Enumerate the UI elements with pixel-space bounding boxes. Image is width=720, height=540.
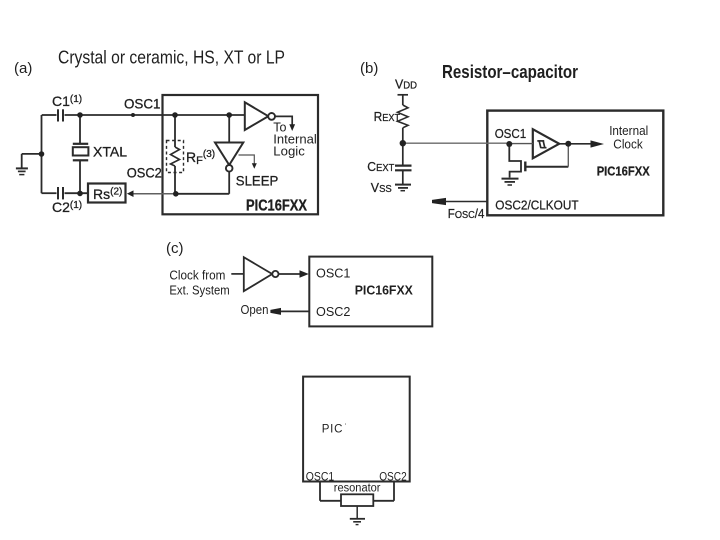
svg-text:(b): (b) bbox=[360, 60, 378, 77]
svg-text:OSC2: OSC2 bbox=[379, 472, 407, 484]
svg-text:Clock: Clock bbox=[613, 137, 643, 151]
svg-text:Logic: Logic bbox=[273, 145, 305, 159]
svg-text:Ext. System: Ext. System bbox=[169, 284, 229, 298]
svg-text:OSC2/CLKOUT: OSC2/CLKOUT bbox=[495, 198, 578, 213]
svg-text:RF(3): RF(3) bbox=[186, 149, 215, 167]
svg-text:VSS: VSS bbox=[371, 180, 392, 195]
svg-text:Resistor–capacitor: Resistor–capacitor bbox=[442, 62, 578, 82]
svg-text:PIC: PIC bbox=[322, 424, 344, 436]
svg-text:’: ’ bbox=[345, 423, 347, 430]
svg-text:(a): (a) bbox=[14, 60, 32, 77]
svg-text:Internal: Internal bbox=[609, 124, 648, 138]
svg-text:OSC1: OSC1 bbox=[495, 126, 527, 141]
svg-text:VDD: VDD bbox=[395, 77, 417, 92]
svg-text:OSC1: OSC1 bbox=[316, 265, 350, 280]
svg-text:PIC16FXX: PIC16FXX bbox=[355, 283, 414, 298]
svg-text:Clock from: Clock from bbox=[169, 269, 225, 283]
svg-text:Rs(2): Rs(2) bbox=[93, 186, 122, 202]
svg-text:OSC1: OSC1 bbox=[124, 96, 161, 112]
svg-text:XTAL: XTAL bbox=[93, 144, 127, 160]
svg-text:C1(1): C1(1) bbox=[52, 93, 82, 109]
svg-text:CEXT: CEXT bbox=[367, 159, 394, 174]
svg-text:resonator: resonator bbox=[334, 483, 381, 495]
svg-text:Open: Open bbox=[241, 302, 269, 317]
svg-text:SLEEP: SLEEP bbox=[236, 173, 278, 189]
svg-text:FOSC/4: FOSC/4 bbox=[448, 207, 485, 221]
svg-text:PIC16FXX: PIC16FXX bbox=[246, 198, 308, 215]
svg-text:OSC1: OSC1 bbox=[306, 472, 334, 484]
svg-text:(c): (c) bbox=[166, 240, 184, 257]
svg-text:C2(1): C2(1) bbox=[52, 199, 82, 215]
svg-text:OSC2: OSC2 bbox=[127, 165, 162, 181]
svg-text:PIC16FXX: PIC16FXX bbox=[597, 163, 650, 178]
svg-text:Crystal or ceramic, HS, XT or: Crystal or ceramic, HS, XT or LP bbox=[58, 48, 285, 68]
svg-text:REXT: REXT bbox=[374, 109, 401, 124]
svg-text:OSC2: OSC2 bbox=[316, 304, 350, 319]
